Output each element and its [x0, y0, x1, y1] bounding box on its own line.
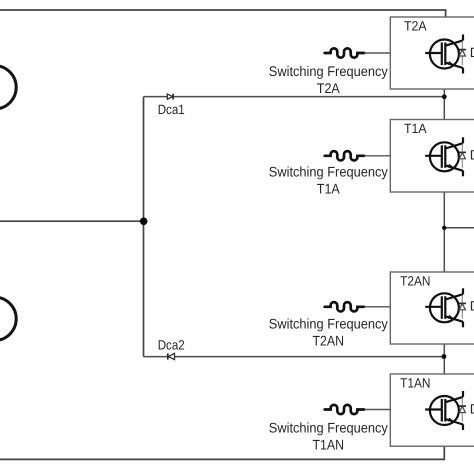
- svg-text:T2AN: T2AN: [313, 333, 345, 349]
- svg-text:T1AN: T1AN: [313, 437, 345, 453]
- svg-text:Switching Frequency: Switching Frequency: [269, 316, 388, 332]
- svg-text:Dca2: Dca2: [158, 337, 185, 352]
- svg-text:T2AN: T2AN: [400, 274, 430, 289]
- svg-text:T2A: T2A: [404, 19, 427, 34]
- svg-text:Switching Frequency: Switching Frequency: [269, 420, 388, 436]
- svg-text:Dca1: Dca1: [158, 102, 185, 117]
- svg-text:T2A: T2A: [317, 80, 341, 96]
- svg-text:Switching Frequency: Switching Frequency: [269, 164, 388, 180]
- svg-text:T1A: T1A: [404, 121, 427, 136]
- svg-text:T1AN: T1AN: [400, 376, 430, 391]
- svg-text:Switching Frequency: Switching Frequency: [269, 63, 388, 79]
- svg-text:T1A: T1A: [317, 181, 341, 197]
